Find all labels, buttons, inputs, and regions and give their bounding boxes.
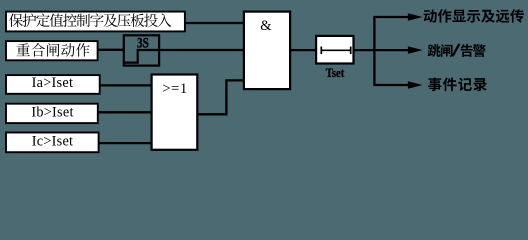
svg-text:Ib>Iset: Ib>Iset — [31, 104, 73, 120]
svg-text:Tset: Tset — [326, 66, 345, 80]
arrowhead: output 2 — [408, 46, 423, 54]
svg-text:3S: 3S — [137, 35, 149, 51]
text: 重合闸动作 — [16, 43, 89, 57]
AND gate box — [244, 12, 290, 90]
Tset delay box — [316, 36, 353, 64]
svg-text:Ic>Iset: Ic>Iset — [32, 133, 74, 149]
wire: Ib box to OR gate — [98, 111, 152, 113]
wire: branch to top arrow — [373, 16, 408, 18]
text: output label 事件记录 — [428, 77, 487, 91]
wire: OR gate output to AND gate lower input — [197, 80, 244, 114]
input box5: Ic>Iset — [6, 133, 99, 153]
3S timer step waveform — [124, 50, 159, 63]
wire: Tset output to middle arrow — [354, 49, 409, 51]
svg-text:&: & — [260, 18, 272, 34]
wire: input box2 to 3S timer — [98, 49, 125, 51]
3S timer box outline — [124, 35, 159, 65]
wire: Ic box to OR gate — [99, 142, 152, 144]
slash in 跳闸/告警 — [453, 44, 460, 56]
OR gate box — [152, 75, 198, 150]
wire: Ia box to OR gate — [100, 84, 152, 86]
Tset delay symbol — [321, 47, 350, 55]
text: 保护定值控制字及压板投入 — [9, 13, 171, 27]
wire: branch to bottom arrow — [373, 84, 408, 86]
input box4: Ib>Iset — [6, 104, 98, 123]
text: 告警 part of output label — [461, 44, 486, 57]
text: output label 动作显示及远传 — [424, 9, 524, 23]
arrowhead: output 1 — [408, 13, 423, 21]
input box3: Ia>Iset — [6, 75, 100, 94]
svg-text:>=1: >=1 — [162, 81, 188, 97]
wire: 3S timer output to AND gate — [158, 49, 244, 51]
wire: vertical branch spine — [373, 17, 375, 85]
svg-text:Ia>Iset: Ia>Iset — [32, 75, 74, 91]
arrowhead: output 3 — [408, 81, 423, 89]
input box1: protection settings/strap — [6, 12, 185, 32]
input box2: reclose operated — [6, 41, 98, 60]
text: 跳闸 part of output label — [428, 44, 453, 57]
wire: AND gate output to Tset block — [290, 49, 316, 51]
wire: input box1 to AND gate — [184, 22, 244, 24]
